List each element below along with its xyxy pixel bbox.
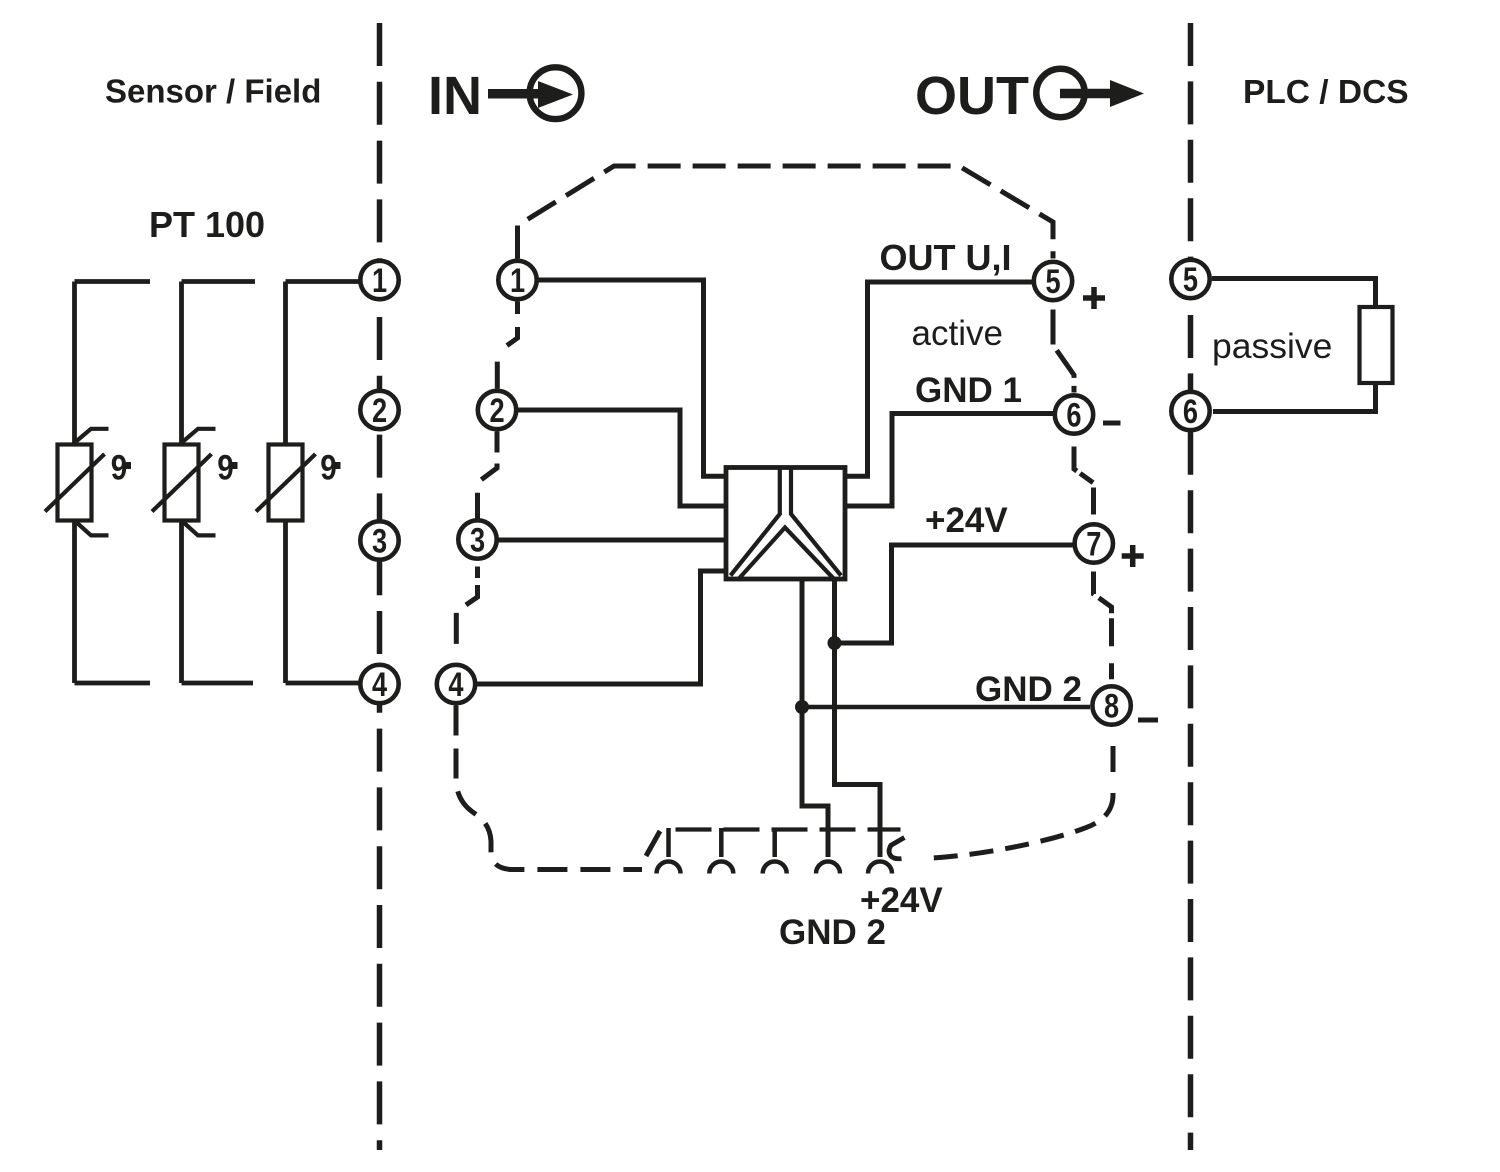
RTD sensor PT100 #1 bbox=[45, 282, 150, 684]
pin number 5 PLC bbox=[1183, 260, 1198, 299]
label GND 2 bus bbox=[779, 913, 886, 952]
load resistor (passive input) bbox=[1360, 307, 1393, 383]
polarity + at terminal 5 bbox=[1083, 287, 1105, 309]
pin number 8 module bbox=[1104, 687, 1119, 726]
terminal 8 module output bbox=[1092, 686, 1130, 724]
pin number 4 module bbox=[448, 665, 463, 704]
svg-text:3: 3 bbox=[470, 521, 485, 560]
svg-text:PLC / DCS: PLC / DCS bbox=[1243, 74, 1409, 111]
svg-text:7: 7 bbox=[1086, 525, 1101, 564]
svg-text:GND 2: GND 2 bbox=[975, 670, 1082, 709]
isolation amplifier symbol bbox=[726, 468, 845, 580]
svg-text:1: 1 bbox=[372, 261, 387, 300]
svg-text:2: 2 bbox=[489, 391, 504, 430]
module dashed outline: zigzag terminal 2 to 3 bbox=[478, 432, 498, 519]
module dashed outline: zigzag terminal 3 to 4 bbox=[456, 561, 477, 663]
svg-text:2: 2 bbox=[372, 391, 387, 430]
svg-text:active: active bbox=[912, 314, 1003, 353]
pin number 7 module bbox=[1086, 525, 1101, 564]
module dashed outline: zigzag terminal 1 to 2 bbox=[497, 302, 517, 389]
pin number 5 module bbox=[1045, 262, 1060, 301]
svg-text:6: 6 bbox=[1066, 396, 1081, 435]
RTD sensor PT100 #2 bbox=[152, 282, 255, 684]
svg-text:GND 2: GND 2 bbox=[779, 913, 886, 952]
svg-text:5: 5 bbox=[1183, 260, 1198, 299]
wire terminal 4 to isolator input bbox=[477, 571, 726, 684]
theta label sensor 1 bbox=[111, 448, 131, 487]
wire +24V supply from junction to terminal 7 bbox=[835, 545, 1073, 643]
terminal 2 field side bbox=[360, 391, 398, 429]
svg-text:+24V: +24V bbox=[925, 501, 1008, 540]
module dashed outline: zigzag terminal 5 to 6 bbox=[1053, 303, 1074, 393]
separator line right (OUT | PLC/DCS) bbox=[1188, 23, 1194, 1150]
bus connector pin 2 bbox=[709, 828, 733, 874]
theta label sensor 2 bbox=[217, 448, 237, 487]
polarity - at terminal 8 bbox=[1138, 718, 1158, 723]
junction dot GND 2 bbox=[795, 700, 809, 714]
svg-text:3: 3 bbox=[372, 522, 387, 561]
pin number 1 module bbox=[510, 261, 525, 300]
wire GND 2 from junction to terminal 8 bbox=[802, 705, 1090, 710]
pin number 3 module bbox=[470, 521, 485, 560]
terminal 1 field side bbox=[360, 261, 398, 299]
IN icon arrow and circle bbox=[488, 67, 581, 119]
OUT icon circle and arrow bbox=[1036, 69, 1144, 117]
wire PLC load: terminal 5 to resistor to terminal 6 bbox=[1212, 279, 1376, 412]
terminal 4 field side bbox=[360, 665, 398, 703]
terminal 3 module input bbox=[458, 520, 496, 558]
theta label sensor 3 bbox=[320, 448, 340, 487]
label IN bbox=[428, 66, 482, 126]
terminal 7 module output bbox=[1075, 524, 1113, 562]
bus connector pin 3 bbox=[763, 828, 787, 874]
label +24V bus bbox=[860, 881, 943, 920]
wire terminal 2 to isolator input bbox=[518, 410, 726, 506]
svg-text:5: 5 bbox=[1045, 262, 1060, 301]
polarity - at terminal 6 bbox=[1103, 421, 1121, 426]
label GND 2 bbox=[975, 670, 1082, 709]
label OUT U,I bbox=[880, 237, 1012, 278]
terminal 4 module input bbox=[437, 665, 475, 703]
svg-text:passive: passive bbox=[1212, 326, 1332, 366]
module dashed outline: zigzag terminal 7 to 8 bbox=[1094, 566, 1112, 684]
svg-text:Sensor / Field: Sensor / Field bbox=[105, 73, 321, 110]
terminal 2 module input bbox=[478, 391, 516, 429]
label Sensor / Field bbox=[105, 73, 321, 110]
label +24V bbox=[925, 501, 1008, 540]
pin number 6 module bbox=[1066, 396, 1081, 435]
terminal 5 module output bbox=[1034, 262, 1072, 300]
label PLC / DCS bbox=[1243, 74, 1409, 111]
label GND 1 bbox=[915, 371, 1022, 410]
label active bbox=[912, 314, 1003, 353]
module dashed outline: bottom left from terminal 4 to bus connector bbox=[456, 706, 642, 870]
module dashed outline: top edge from terminal 1 to terminal 5 bbox=[518, 166, 1054, 259]
module dashed outline: bus connector bar bbox=[676, 827, 901, 831]
terminal 1 module input bbox=[498, 261, 536, 299]
module dashed outline: zigzag terminal 6 to 7 bbox=[1074, 437, 1094, 522]
pin number 4 field bbox=[372, 665, 387, 704]
wire terminal 1 to isolator input bbox=[539, 280, 728, 476]
wire isolator to terminal 6 (GND 1) bbox=[846, 414, 1054, 507]
module dashed outline: bottom right curve up to terminal 8 bbox=[916, 728, 1113, 859]
pin number 6 PLC bbox=[1183, 392, 1198, 431]
separator line left (Sensor/Field | IN) bbox=[377, 23, 383, 1150]
svg-text:8: 8 bbox=[1104, 687, 1119, 726]
pin number 1 field bbox=[372, 261, 387, 300]
svg-text:IN: IN bbox=[428, 66, 482, 126]
label PT 100 bbox=[149, 204, 265, 245]
svg-text:1: 1 bbox=[510, 261, 525, 300]
wire isolator bottom to bus connector GND 2 bbox=[802, 578, 828, 857]
pin number 2 field bbox=[372, 391, 387, 430]
label OUT bbox=[915, 66, 1029, 126]
terminal 3 field side bbox=[360, 521, 398, 559]
svg-text:OUT: OUT bbox=[915, 66, 1029, 126]
bus connector pin 1 bbox=[657, 828, 681, 874]
svg-text:6: 6 bbox=[1183, 392, 1198, 431]
terminal 6 module output bbox=[1055, 395, 1093, 433]
svg-text:4: 4 bbox=[448, 665, 463, 704]
wire terminal 3 to isolator input bbox=[499, 538, 726, 543]
junction dot +24V bbox=[828, 636, 842, 650]
bus connector pin 5 (+24V) bbox=[868, 862, 892, 874]
svg-text:OUT U,I: OUT U,I bbox=[880, 237, 1012, 278]
svg-text:PT 100: PT 100 bbox=[149, 204, 265, 245]
terminal 5 PLC side bbox=[1171, 260, 1209, 298]
label passive bbox=[1212, 326, 1332, 366]
wire isolator to terminal 5 (OUT U,I) bbox=[845, 282, 1034, 476]
polarity + at terminal 7 bbox=[1122, 545, 1144, 567]
RTD sensor PT100 #3 bbox=[256, 282, 359, 684]
module dashed outline: hook up to connector bar left bbox=[646, 831, 660, 856]
wire isolator bottom to bus connector +24V bbox=[835, 578, 881, 857]
pin number 3 field bbox=[372, 522, 387, 561]
pin number 2 module bbox=[489, 391, 504, 430]
module dashed outline: hook down right of connector bbox=[889, 838, 904, 859]
svg-text:4: 4 bbox=[372, 665, 387, 704]
terminal 6 PLC side bbox=[1171, 392, 1209, 430]
bus connector pin 4 (GND 2) bbox=[816, 862, 840, 874]
svg-text:GND 1: GND 1 bbox=[915, 371, 1022, 410]
